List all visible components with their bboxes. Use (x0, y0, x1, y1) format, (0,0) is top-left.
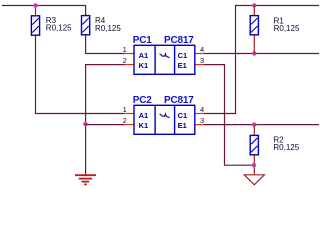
wire PC2 pin3 to right edge (204, 124, 319, 126)
wire top-right rail net VCC2 (235, 5, 319, 7)
svg-text:R0,125: R0,125 (273, 143, 299, 152)
wire R1 top stub (253, 6, 255, 17)
wire R2 top lead (253, 125, 255, 136)
svg-text:A1: A1 (139, 111, 149, 120)
PC1 led arrow symbol (160, 54, 170, 58)
svg-text:4: 4 (200, 105, 204, 114)
svg-text:1: 1 (123, 45, 127, 54)
svg-text:1: 1 (123, 105, 127, 114)
wire PC1 pin4 to right rail (204, 53, 319, 55)
wire R2 bottom lead to ground (253, 155, 255, 175)
PC2 led arrow symbol (160, 114, 170, 118)
pin PC1 pin3 stub (195, 64, 205, 66)
svg-text:C1: C1 (178, 51, 188, 60)
wire top-left rail net VCC1 (2, 6, 86, 16)
node junction dot at R3 tap (33, 3, 37, 7)
svg-text:E1: E1 (178, 121, 187, 130)
pin PC2 pin3 stub (195, 124, 205, 126)
resistor R3 (31, 16, 39, 35)
wire PC2 pin4 up to top-right rail (204, 6, 235, 114)
svg-text:PC2: PC2 (133, 95, 152, 106)
wire PC1 pin2 to common cathode vertical down to ground (86, 65, 125, 175)
svg-text:3: 3 (200, 116, 204, 125)
svg-text:PC817: PC817 (164, 95, 194, 106)
resistor R1 (250, 16, 258, 35)
optocoupler PC1 box (134, 45, 195, 74)
pin PC2 pin4 stub (195, 113, 205, 115)
pin PC1 pin2 stub (124, 64, 134, 66)
svg-text:E1: E1 (178, 61, 187, 70)
wire R3 lead down to PC2 pin1 (36, 35, 125, 114)
svg-text:PC817: PC817 (164, 35, 194, 46)
svg-text:4: 4 (200, 45, 204, 54)
svg-text:C1: C1 (178, 111, 188, 120)
optocoupler PC2 box (134, 105, 195, 134)
pin PC1 pin4 stub (195, 53, 205, 55)
svg-text:2: 2 (123, 116, 127, 125)
svg-text:2: 2 (123, 56, 127, 65)
svg-text:A1: A1 (139, 51, 149, 60)
svg-text:PC1: PC1 (133, 35, 152, 46)
wire R1 bottom lead (253, 35, 255, 54)
wire R4 lead down to PC1 pin1 (86, 35, 125, 54)
resistor R4 (82, 16, 90, 35)
pin PC1 pin1 stub (124, 53, 134, 55)
wire PC1 pin3 down to ground node (204, 65, 254, 166)
node junction dot at R2 top (252, 122, 256, 126)
node junction dot common cathode (83, 122, 87, 126)
node junction dot at R2 bottom (252, 163, 256, 167)
pin PC2 pin1 stub (124, 113, 134, 115)
svg-text:R0,125: R0,125 (274, 24, 300, 33)
ground earth symbol left (75, 175, 96, 184)
pin PC2 pin2 stub (124, 124, 134, 126)
wire PC2 pin2 (86, 124, 125, 126)
resistor R2 (250, 135, 258, 154)
svg-text:R0,125: R0,125 (46, 24, 72, 33)
svg-text:R0,125: R0,125 (95, 24, 121, 33)
svg-text:K1: K1 (139, 61, 149, 70)
svg-text:K1: K1 (139, 121, 149, 130)
svg-text:3: 3 (200, 56, 204, 65)
node junction dot at R1 top (252, 3, 256, 7)
wire R3 top stub (35, 6, 37, 17)
node junction dot below R1 (252, 51, 256, 55)
ground triangle symbol right (244, 175, 264, 185)
